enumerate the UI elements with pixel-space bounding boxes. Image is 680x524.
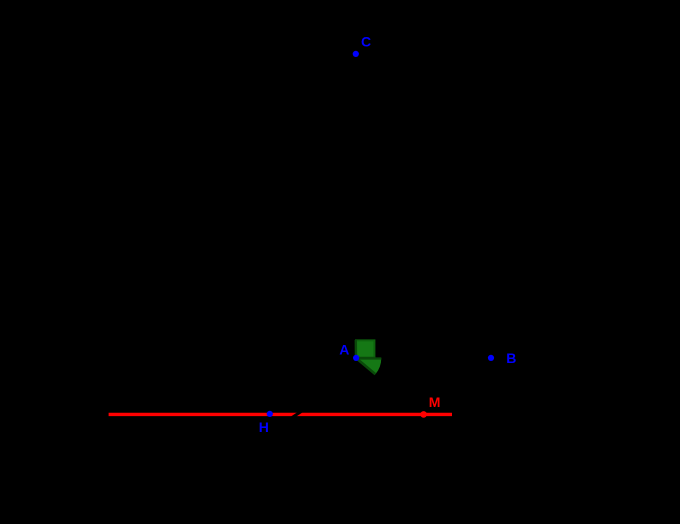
black tick crossing red line near x=296 <box>291 411 302 418</box>
point B <box>488 355 494 361</box>
svg-text:H: H <box>259 419 269 435</box>
svg-text:M: M <box>429 394 441 410</box>
svg-text:C: C <box>361 34 371 50</box>
angle marker sector at A (angle between AB and AM) <box>356 358 381 374</box>
point A <box>353 355 359 361</box>
red line through H and M <box>109 413 452 416</box>
svg-text:A: A <box>339 342 349 358</box>
svg-text:B: B <box>506 350 516 366</box>
point C <box>353 51 359 57</box>
right-angle marker at A (green square) <box>355 340 375 358</box>
point M <box>420 411 427 418</box>
point H <box>267 411 273 417</box>
